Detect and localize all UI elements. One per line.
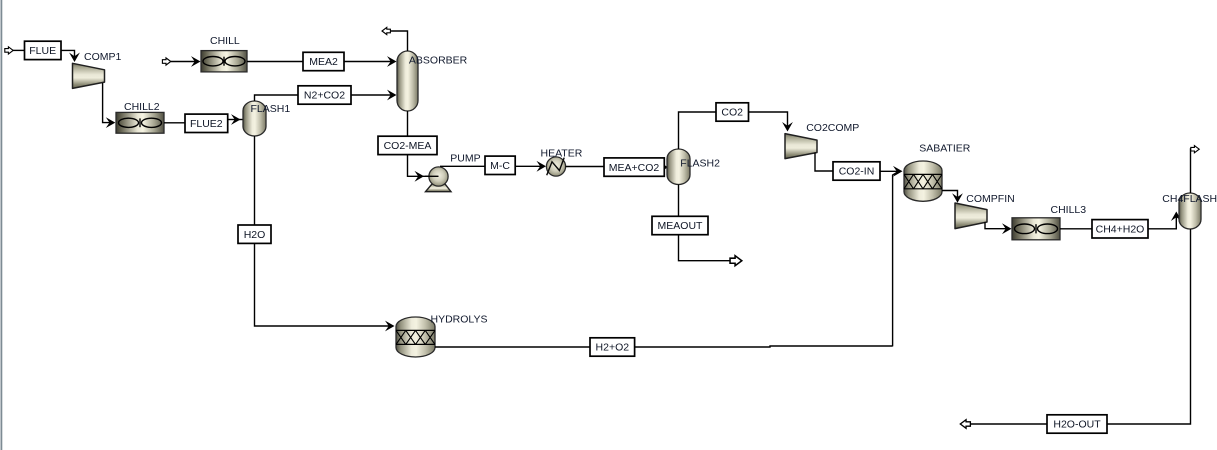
- svg-text:H2+O2: H2+O2: [596, 342, 630, 354]
- svg-text:HYDROLYS: HYDROLYS: [431, 313, 488, 325]
- svg-text:H2O-OUT: H2O-OUT: [1053, 419, 1101, 431]
- wire CH4+H2O to CH4FLASH: [1148, 213, 1176, 229]
- stream label H2O-OUT: [1047, 415, 1107, 433]
- product arrow H2O-OUT: [960, 420, 970, 429]
- wire FLASH2 top to CO2: [679, 112, 717, 149]
- wire MEA2 to ABSORBER: [344, 61, 395, 63]
- stream label M-C: [485, 156, 515, 174]
- arrow into SABATIER: [893, 166, 903, 177]
- wire CHILL2 to FLUE2: [164, 122, 185, 124]
- wire feed to CHILL: [171, 61, 199, 63]
- arrow into COMPFIN: [952, 193, 963, 203]
- product arrow ABSORBER vent: [382, 27, 390, 34]
- svg-text:H2O: H2O: [244, 229, 266, 241]
- arrow into ABSORBER top inlet: [387, 56, 397, 67]
- wire N2+CO2 to ABSORBER: [351, 94, 395, 96]
- wire SABATIER to COMPFIN: [942, 191, 958, 202]
- svg-text:FLASH1: FLASH1: [251, 103, 291, 115]
- heat exchanger CHILL2: [116, 112, 164, 133]
- arrow into CH4FLASH: [1171, 212, 1182, 222]
- wire H2O-OUT to exit: [971, 423, 1047, 425]
- wire FLUE to COMP1: [61, 50, 75, 60]
- pump PUMP base: [426, 184, 452, 192]
- product arrow MEAOUT: [730, 256, 742, 266]
- arrow into CO2COMP: [782, 122, 793, 132]
- wire CH4FLASH vent: [1190, 149, 1192, 193]
- stream label CH4+H2O: [1092, 220, 1148, 238]
- stream label FLUE2: [185, 114, 228, 132]
- wire FLASH1 bottom to H2O: [254, 136, 256, 225]
- reactor SABATIER: [904, 161, 942, 201]
- stream label N2+CO2: [298, 86, 351, 104]
- flash drum CH4FLASH: [1179, 193, 1201, 229]
- wire CO2-IN to SABATIER: [880, 170, 901, 172]
- wire CO2-MEA to PUMP: [408, 155, 439, 177]
- svg-text:CO2: CO2: [721, 107, 743, 119]
- wire CHILL3 to CH4+H2O: [1060, 228, 1092, 230]
- stream label CO2: [716, 103, 749, 121]
- svg-text:FLUE2: FLUE2: [190, 118, 223, 130]
- wire CHILL to MEA2: [247, 61, 303, 63]
- wire COMPFIN to CHILL3: [985, 222, 1010, 229]
- svg-text:CH4FLASH: CH4FLASH: [1162, 193, 1217, 205]
- stream label FLUE: [25, 41, 62, 59]
- wire ABSORBER bottom to CO2-MEA: [407, 111, 409, 136]
- svg-text:SABATIER: SABATIER: [919, 142, 971, 154]
- wire FLUE2 to FLASH1: [228, 119, 243, 121]
- svg-text:FLASH2: FLASH2: [680, 157, 720, 169]
- feed arrow FLUE: [5, 47, 13, 54]
- flash drum FLASH2: [667, 149, 690, 185]
- arrow into FLASH1: [231, 114, 241, 125]
- stream label H2+O2: [590, 338, 635, 356]
- svg-text:CO2-MEA: CO2-MEA: [384, 140, 432, 152]
- svg-text:CH4+H2O: CH4+H2O: [1096, 224, 1145, 236]
- pump PUMP sphere: [429, 167, 448, 186]
- svg-text:CO2COMP: CO2COMP: [806, 122, 859, 134]
- reactor HYDROLYS: [396, 317, 435, 357]
- wire ABSORBER vent: [391, 31, 408, 51]
- heat exchanger CHILL3: [1012, 218, 1060, 240]
- svg-text:COMPFIN: COMPFIN: [966, 193, 1014, 205]
- arrow into PUMP: [415, 171, 425, 182]
- wire CH4FLASH bottom to H2O-OUT: [1107, 229, 1191, 424]
- wire H2O to HYDROLYS: [255, 243, 393, 326]
- flash drum FLASH1: [243, 101, 266, 136]
- wire H2+O2 to riser: [635, 346, 893, 347]
- arrow into FLASH2: [659, 162, 669, 173]
- wire CO2COMP to CO2-IN: [815, 153, 833, 172]
- arrow into CHILL2: [106, 117, 116, 128]
- wire COMP1 to CHILL2: [103, 83, 114, 123]
- stream label MEAOUT: [652, 216, 708, 234]
- svg-text:N2+CO2: N2+CO2: [304, 90, 345, 102]
- compressor COMPFIN: [955, 203, 987, 229]
- stream label CO2-MEA: [378, 136, 437, 154]
- svg-text:CHILL2: CHILL2: [124, 101, 160, 113]
- svg-text:CHILL: CHILL: [210, 35, 240, 47]
- compressor COMP1: [73, 63, 105, 88]
- wire PUMP to M-C: [440, 165, 485, 167]
- compressor CO2COMP: [785, 134, 817, 159]
- wire HEATER to MEA+CO2: [566, 166, 604, 168]
- arrow into CHILL3: [1002, 223, 1012, 234]
- arrow into COMP1: [69, 53, 80, 63]
- stream label MEA+CO2: [604, 158, 664, 176]
- heat exchanger CHILL: [201, 51, 247, 72]
- wire MEAOUT to exit: [679, 235, 731, 261]
- stream label H2O: [238, 225, 271, 243]
- svg-text:M-C: M-C: [490, 160, 510, 172]
- pump inlet line over sphere: [425, 175, 439, 177]
- wire H2+O2 riser to SABATIER: [893, 172, 899, 347]
- svg-text:MEAOUT: MEAOUT: [658, 220, 704, 232]
- svg-text:ABSORBER: ABSORBER: [409, 55, 468, 67]
- column ABSORBER: [397, 51, 418, 111]
- arrow into ABSORBER lower inlet: [387, 90, 397, 101]
- stream label MEA2: [303, 52, 344, 70]
- wire FLUE feed line: [13, 49, 25, 51]
- svg-text:MEA2: MEA2: [309, 56, 338, 68]
- stream label CO2-IN: [833, 162, 880, 180]
- wire FLASH1 top to N2+CO2: [255, 95, 299, 101]
- feed arrow CHILL inlet: [162, 58, 170, 65]
- svg-text:PUMP: PUMP: [450, 153, 480, 165]
- svg-text:HEATER: HEATER: [541, 148, 583, 160]
- product arrow CH4 vent: [1191, 146, 1199, 153]
- arrow into HEATER: [537, 161, 547, 172]
- wire M-C to HEATER: [515, 165, 544, 167]
- svg-text:COMP1: COMP1: [84, 51, 122, 63]
- wire CO2 to CO2COMP: [749, 112, 788, 130]
- svg-text:CO2-IN: CO2-IN: [839, 166, 875, 178]
- arrow into CHILL: [191, 56, 201, 67]
- svg-text:CHILL3: CHILL3: [1051, 204, 1087, 216]
- svg-text:MEA+CO2: MEA+CO2: [609, 162, 660, 174]
- wire FLASH2 bottom to MEAOUT: [678, 185, 680, 217]
- window left border: [1, 0, 3, 450]
- wire HYDROLYS to H2+O2: [435, 346, 590, 348]
- heater HEATER sphere: [546, 157, 565, 176]
- heater zigzag: [547, 158, 565, 176]
- svg-text:FLUE: FLUE: [29, 45, 56, 57]
- arrow into HYDROLYS: [385, 321, 395, 332]
